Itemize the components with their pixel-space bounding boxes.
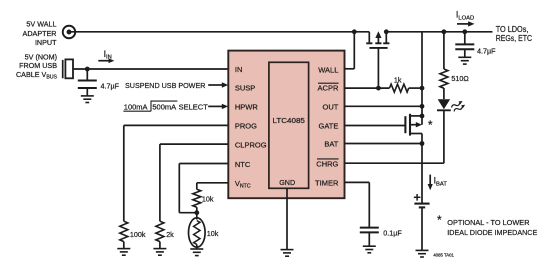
overline: ACPR [318, 82, 339, 84]
svg-text:INPUT: INPUT [35, 38, 57, 47]
thermistor 10k NTC [189, 213, 206, 249]
capacitor 4.7uF output [455, 32, 474, 58]
node: rail 510 tap [442, 29, 447, 34]
svg-text:SUSP: SUSP [235, 84, 255, 93]
ground: GND pin [281, 250, 294, 257]
wire: SUSP arrow [208, 82, 228, 87]
svg-text:*: * [437, 213, 442, 227]
underline: 100mA [123, 110, 151, 112]
wire: NTC pin to divider node [179, 164, 228, 213]
ground: input cap [81, 96, 94, 103]
wire: WALL pin to rail [345, 32, 355, 69]
svg-text:*: * [428, 118, 433, 132]
node: rail WALL tap [352, 29, 357, 34]
resistor 510 ohm [440, 32, 448, 88]
node: 1k OUT vertical [420, 86, 425, 91]
node: rail output cap tap [462, 29, 467, 34]
wire: rail down to ideal diode FET [421, 32, 423, 125]
svg-text:500mA: 500mA [152, 102, 176, 111]
overline: CHRG [317, 158, 339, 160]
capacitor 4.7uF input [78, 69, 97, 96]
node: VBUS junction [85, 67, 90, 72]
svg-text:5V WALL: 5V WALL [26, 20, 56, 29]
wire: PROG to 100k [124, 125, 229, 221]
node: NTC divider junction [194, 210, 199, 215]
wire: IIN arrow [98, 58, 114, 63]
svg-text:OPTIONAL - TO LOWER: OPTIONAL - TO LOWER [447, 218, 530, 227]
wire: ILOAD arrow [457, 21, 475, 26]
wire: VBUS to IN pin [73, 68, 228, 70]
transistor wall PFET [366, 31, 389, 88]
svg-text:GND: GND [279, 178, 295, 187]
svg-text:FROM USB: FROM USB [19, 61, 57, 70]
node: wall adapter jack J1 [63, 26, 76, 39]
capacitor 0.1uF timer [360, 228, 379, 247]
ground: 2k [153, 249, 166, 256]
svg-text:10k: 10k [202, 194, 214, 203]
svg-text:CLPROG: CLPROG [235, 140, 267, 149]
wire: wall adapter rail to PFET drain [71, 31, 369, 33]
wire: HPWR arrow [208, 104, 228, 109]
node: BAT junction [420, 141, 425, 146]
wire: 2k to ground [159, 242, 161, 249]
pin labels [235, 65, 339, 189]
IC inner block [269, 62, 309, 188]
svg-text:100k: 100k [130, 230, 146, 239]
resistor 2k [156, 221, 164, 241]
svg-text:LTC4085: LTC4085 [273, 116, 305, 125]
wire: VNTC pin to 10k [197, 183, 229, 190]
ground: output cap [458, 57, 471, 64]
wire: 1k to OUT vertical [409, 87, 422, 89]
wire: output rail [386, 31, 492, 33]
svg-text:BAT: BAT [324, 140, 338, 149]
svg-text:IN: IN [235, 65, 243, 74]
ground: battery [416, 250, 429, 257]
node: drain stub junction [420, 114, 425, 119]
wire: IBAT arrow [428, 175, 433, 191]
svg-text:SUSPEND USB POWER: SUSPEND USB POWER [125, 81, 206, 90]
resistor 1k [390, 84, 409, 92]
ground: timer cap [363, 246, 376, 253]
svg-text:4.7µF: 4.7µF [101, 81, 120, 90]
svg-text:HPWR: HPWR [235, 103, 258, 112]
ground: 100k [117, 249, 130, 256]
svg-text:GATE: GATE [319, 122, 339, 131]
svg-text:510Ω: 510Ω [451, 74, 469, 83]
wire: BAT pin [345, 143, 423, 145]
svg-text:4085 TA01: 4085 TA01 [433, 252, 454, 257]
wire: 10k to node [196, 207, 198, 213]
svg-text:CHRG: CHRG [316, 159, 338, 168]
svg-text:4.7µF: 4.7µF [477, 46, 496, 55]
overlines and logic level marks [123, 83, 338, 159]
node: OUT junction [420, 104, 425, 109]
wire: TIMER to 0.1uF [345, 182, 370, 227]
svg-text:100mA: 100mA [124, 102, 148, 111]
svg-text:REGs, ETC: REGs, ETC [496, 34, 532, 43]
svg-text:IDEAL DIODE IMPEDANCE: IDEAL DIODE IMPEDANCE [447, 228, 537, 237]
battery BT1 [414, 194, 430, 250]
ground: thermistor [190, 249, 203, 256]
svg-text:0.1µF: 0.1µF [383, 229, 402, 238]
svg-text:NTC: NTC [235, 160, 251, 169]
svg-text:OUT: OUT [323, 102, 339, 111]
wire: BAT to battery [421, 144, 423, 204]
wire: CHRG pin to LED [345, 110, 444, 163]
wire: OUT pin [345, 105, 423, 107]
wire: ACPR line [345, 87, 390, 89]
resistor 10k bias [193, 189, 201, 207]
node: rail PFET source [384, 29, 389, 34]
resistor 100k [120, 221, 128, 241]
svg-text:TO LDOs,: TO LDOs, [496, 25, 529, 34]
svg-text:2k: 2k [166, 230, 174, 239]
IC LTC4085 body [228, 51, 344, 199]
transistor ideal diode PFET [345, 114, 423, 144]
logic rise mark: select [151, 101, 177, 111]
wire: GND pin to ground [286, 188, 288, 249]
svg-text:PROG: PROG [235, 122, 257, 131]
wire: CLPROG to 2k [160, 144, 228, 221]
svg-text:WALL: WALL [318, 65, 338, 74]
svg-text:10k: 10k [207, 229, 219, 238]
svg-text:SELECT: SELECT [179, 102, 209, 111]
node: PFET gate to ACPR [376, 86, 381, 91]
svg-text:ACPR: ACPR [318, 83, 339, 92]
svg-text:TIMER: TIMER [315, 179, 339, 188]
LED charge indicator [437, 88, 466, 113]
wire: 100k to ground [123, 242, 125, 249]
node: USB connector J2 [63, 59, 73, 78]
svg-text:1k: 1k [394, 75, 402, 84]
svg-text:ADAPTER: ADAPTER [23, 29, 57, 38]
